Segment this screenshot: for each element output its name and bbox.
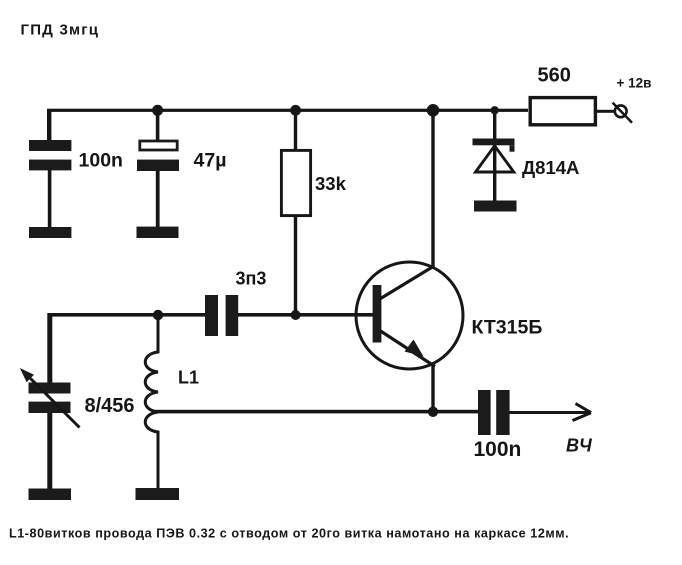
svg-text:L1-80витков провода ПЭВ 0.32 с: L1-80витков провода ПЭВ 0.32 с отводом о… [9,526,569,540]
svg-text:+ 12в: + 12в [617,76,652,91]
capacitor C5 100n output [478,390,491,435]
wire base rail left segment [48,313,206,317]
wire [47,413,52,489]
ground [29,227,71,238]
capacitor C1 100n plates [29,140,71,151]
capacitor C2 47µ electrolytic [140,141,177,150]
wire bottom rail (tap to output cap) [153,410,478,414]
node junction emitter rail [428,407,438,417]
diode zener VD1 Д814А [473,139,515,202]
svg-text:100n: 100n [79,150,123,172]
capacitor C3 3п3 [205,295,218,336]
wire 33k bottom [294,216,297,315]
wire [156,171,160,227]
ground [29,489,72,501]
wire emitter drop [431,366,434,412]
svg-text:Д814А: Д814А [522,157,579,178]
wire to terminal [597,110,615,113]
svg-text:КТ315Б: КТ315Б [472,316,543,338]
inductor L1 [145,315,158,488]
svg-text:47µ: 47µ [194,150,227,172]
wire zener drop [493,110,496,139]
arrowhead ВЧ output [573,404,592,421]
svg-text:560: 560 [538,65,571,87]
resistor R2 560 [530,98,595,125]
wire 100n drop [47,110,51,141]
svg-text:ГПД 3мгц: ГПД 3мгц [21,21,100,38]
wire base rail right segment [238,313,374,317]
transistor Q1 КТ315Б [356,262,463,369]
wire 33k top [294,110,297,149]
svg-text:8/456: 8/456 [85,395,135,417]
node junction 47µ [152,105,163,116]
wire collector drop [431,110,434,267]
wire 47µ drop [156,110,160,140]
node junction base [291,310,301,320]
svg-text:ВЧ: ВЧ [566,436,593,456]
node junction 33k [290,105,301,116]
resistor R1 33k [281,150,310,215]
svg-text:L1: L1 [178,368,199,388]
wire left drop to variable cap [47,313,52,383]
wire output arrow line [510,411,591,414]
variable capacitor C4 8/456 [20,368,80,428]
ground [137,227,179,238]
node junction L1 [153,310,163,320]
wire top supply rail [47,109,528,112]
node junction collector [427,104,440,117]
node junction zener [491,106,499,114]
ground L1 [136,488,180,500]
wire [48,170,52,228]
svg-text:3п3: 3п3 [236,269,267,289]
svg-text:33k: 33k [315,173,347,194]
svg-text:100n: 100n [474,438,522,461]
ground [474,201,517,212]
terminal +12в [613,103,632,123]
